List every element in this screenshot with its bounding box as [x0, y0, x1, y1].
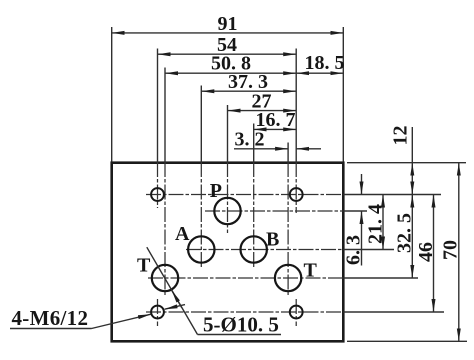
centerline bolt top row: [146, 194, 343, 196]
centerline bolt-right column top: [295, 162, 297, 213]
dimension 46: [415, 195, 437, 313]
centerline bolt-left column bottom: [157, 299, 159, 326]
hole B: [241, 236, 267, 262]
centerline P row: [205, 210, 343, 212]
extension line bolt top row right: [343, 194, 441, 196]
svg-text:18. 5: 18. 5: [305, 52, 345, 74]
dimension 16.7: [254, 109, 297, 131]
extension line A-B row right: [343, 249, 394, 251]
centerline T row: [148, 277, 343, 279]
extension line A column: [200, 86, 202, 163]
dimension 54: [158, 34, 297, 56]
extension line plate-right: [342, 27, 344, 162]
hole T-left: [152, 265, 178, 291]
svg-text:4-M6/12: 4-M6/12: [12, 306, 89, 330]
svg-text:B: B: [266, 229, 279, 251]
dimension 18.5: [296, 52, 344, 74]
extension line bottom edge right: [347, 340, 467, 342]
centerline bolt-right column bottom: [295, 299, 297, 326]
extension line bolt-left column: [157, 49, 159, 163]
extension line T-right column: [287, 143, 289, 163]
hole A: [188, 236, 214, 262]
centerline A column: [200, 162, 202, 268]
svg-text:12: 12: [389, 126, 411, 146]
extension line bolt-right column: [295, 49, 297, 163]
svg-text:5-Ø10. 5: 5-Ø10. 5: [203, 313, 279, 337]
centerline A-B row: [186, 249, 343, 251]
svg-text:3. 2: 3. 2: [235, 128, 265, 150]
extension line T-left column: [164, 68, 166, 163]
leader 4-M6/12: [10, 306, 151, 330]
svg-text:T: T: [137, 255, 151, 277]
centerline T-left column: [164, 162, 166, 297]
extension line B column: [253, 124, 255, 163]
svg-text:A: A: [175, 223, 190, 245]
leader 5-dia10.5: [147, 247, 281, 336]
dimension 12: [389, 126, 412, 195]
dimension 21.4: [364, 195, 386, 250]
dimension 37.3: [201, 71, 296, 93]
extension line P row right: [343, 210, 367, 212]
centerline bolt bottom row: [146, 311, 343, 313]
dimension 91: [112, 13, 344, 35]
dimension 32.5: [394, 195, 416, 279]
svg-text:6. 3: 6. 3: [343, 235, 365, 265]
svg-text:70: 70: [439, 240, 461, 260]
centerline T-right column: [287, 162, 289, 297]
hole P: [214, 198, 240, 224]
hole bolt bottom-right: [290, 306, 303, 319]
extension line plate-left: [111, 27, 113, 162]
extension line T row right: [343, 277, 418, 279]
extension line top edge right: [347, 162, 466, 164]
svg-text:P: P: [210, 180, 222, 202]
svg-text:T: T: [304, 260, 318, 282]
svg-text:32. 5: 32. 5: [394, 213, 416, 253]
dimension 6.3: [343, 174, 365, 266]
extension line bolt bottom row right: [343, 311, 444, 313]
hole T-right: [275, 265, 301, 291]
plate outline: [112, 163, 344, 342]
centerline B column: [253, 162, 255, 267]
hole bolt top-left: [151, 188, 164, 201]
hole bolt bottom-left: [151, 306, 164, 319]
dimension 3.2: [234, 128, 321, 150]
svg-text:21. 4: 21. 4: [364, 204, 386, 244]
centerline P column: [227, 162, 229, 233]
dimension 50.8: [165, 53, 296, 75]
centerline bolt-left column top: [157, 162, 159, 208]
dimension 70: [439, 163, 461, 342]
dimension 27: [228, 90, 297, 112]
svg-text:91: 91: [218, 13, 238, 35]
hole bolt top-right: [290, 188, 303, 201]
extension line P column: [227, 105, 229, 162]
svg-text:46: 46: [415, 242, 437, 262]
